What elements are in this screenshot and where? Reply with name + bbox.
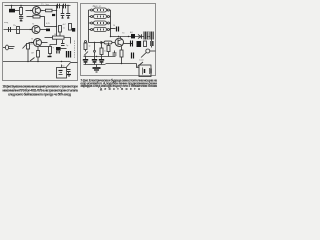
ground cap G21 [85, 56, 87, 60]
ground G2 [67, 74, 71, 76]
pickup L1 [94, 8, 107, 12]
capacitor C4 to ground [62, 6, 64, 14]
transformer TR2 winding B [150, 32, 154, 40]
wire stage2 base row [4, 29, 33, 31]
arrow into T2 [30, 29, 32, 31]
electrolytic C27 [150, 41, 153, 46]
capacitor C5 [8, 27, 10, 32]
resistor R7 horizontal [53, 36, 65, 39]
svg-text:1к: 1к [63, 27, 65, 29]
diode D2 arrow [138, 35, 141, 39]
resistor R5 [17, 27, 20, 34]
switch S22 [138, 62, 144, 67]
wire T4 collector up [120, 37, 122, 39]
ground bus wire [3, 61, 71, 63]
left schematic frame [3, 3, 78, 81]
wire row y26 [45, 26, 57, 28]
switch S2 [67, 63, 71, 68]
battery cell long [142, 68, 144, 75]
resistor R22 hanging [85, 41, 87, 43]
capacitor C2 series on bus [57, 4, 59, 9]
svg-text:10: 10 [113, 25, 115, 27]
resistor R26 horizontal [104, 41, 112, 44]
svg-text:5к: 5к [104, 51, 106, 53]
battery box B1 [139, 65, 151, 77]
wire R7 to R10 [50, 39, 57, 46]
pickup L3 [94, 21, 107, 25]
capacitor C11 plates [67, 69, 71, 71]
pickup L4 [94, 28, 107, 32]
wire to T4 base [112, 42, 115, 44]
capacitor C1 under R1 [20, 15, 22, 17]
ground cap G22 [94, 52, 96, 59]
svg-text:0,25: 0,25 [46, 23, 50, 25]
wiper arrow on bus [30, 58, 35, 62]
capacitor C10 plates [62, 40, 64, 43]
wire collector T3 [41, 42, 47, 44]
resistor R2 horizontal [46, 9, 53, 12]
switch S1 [23, 44, 28, 49]
capacitor C4b to ground [67, 6, 69, 14]
branch wire 2 [94, 43, 96, 51]
lower bus [84, 64, 106, 66]
switch S23 to jack [141, 53, 146, 58]
svg-text:Звук. гл.: Звук. гл. [93, 5, 102, 8]
wire wiper out [40, 46, 49, 48]
dashed feedback wire [74, 41, 76, 59]
wire base lead T1 [26, 10, 33, 12]
wire collector T1 [40, 10, 56, 12]
wire top supply bus [5, 5, 71, 7]
transformer TR1 black block [9, 9, 15, 13]
node vertical x56 lower [56, 20, 58, 37]
svg-text:22к: 22к [13, 25, 16, 27]
svg-text:Т2: Т2 [32, 24, 34, 26]
resistor R23 [101, 43, 103, 49]
wire box to switch [137, 64, 140, 68]
potentiometer P1 [37, 51, 40, 58]
resistor R8 [59, 26, 62, 33]
arrow into T1 [30, 10, 32, 12]
svg-text:1к: 1к [89, 46, 91, 48]
coupling blob C1b [52, 14, 55, 16]
junction dots right [94, 28, 132, 64]
switch S21 [84, 52, 88, 56]
resistor R1 [20, 8, 23, 15]
capacitor C8 electrolytic black [56, 47, 61, 51]
big ground G24 [96, 65, 98, 68]
wire speaker up [61, 65, 63, 68]
resistor R9 [69, 24, 72, 31]
battery cell short [144, 69, 146, 73]
svg-text:Т3: Т3 [31, 38, 33, 40]
junction dots left [8, 5, 69, 62]
arrow into T3 [31, 42, 33, 44]
resistor R21 [144, 41, 147, 47]
capacitor C6 electrolytic black [72, 28, 75, 32]
emitter resistor R24 [108, 43, 110, 46]
cell bars right [149, 68, 151, 74]
transformer TR2 winding A [144, 32, 148, 40]
arrow into base [101, 41, 103, 43]
transistor T4 [115, 38, 123, 46]
resistor R6 [27, 44, 30, 50]
wire C8 out [61, 48, 67, 50]
capacitor C23 bars [130, 41, 132, 47]
speaker box SP [57, 68, 67, 79]
svg-text:след които байпасването при гд: след които байпасването при где че 50% в… [8, 92, 72, 96]
ground bar under R10 [48, 56, 52, 58]
wire TR1 to bus [11, 6, 13, 9]
resistor R10 [49, 47, 52, 54]
coupling blob C7 [46, 29, 50, 32]
wire right pickup bus [109, 9, 110, 11]
capacitor C24 black [137, 41, 142, 47]
wire base bus mid [89, 42, 105, 44]
wire collector T2 [40, 29, 47, 31]
pickup L2 [94, 15, 107, 19]
wire transformer down [151, 40, 153, 48]
wire R6 down [27, 49, 29, 62]
arrow out T1 [41, 10, 43, 12]
transistor T2 [32, 26, 40, 34]
wire TR1 output [15, 10, 20, 12]
transistor T3 [34, 39, 42, 47]
input jack J1 [5, 45, 8, 50]
wire left pickup bus [89, 9, 91, 11]
wire R1 to bus [20, 6, 22, 8]
transformer core [148, 31, 150, 40]
jack J2 [146, 49, 150, 53]
svg-text:помп: помп [139, 59, 144, 61]
svg-text:5мк: 5мк [46, 4, 49, 6]
resistor R3 horizontal [27, 16, 34, 18]
capacitor C9 bars [66, 51, 68, 58]
wire S2 to frame [71, 62, 78, 64]
resistor R25 [121, 47, 123, 51]
right schematic frame [81, 4, 156, 76]
bus lower [84, 56, 116, 58]
main wire y36 [111, 36, 153, 38]
capacitor C25 plates [114, 51, 116, 53]
ground cap G23 [101, 55, 103, 60]
svg-text:1М: 1М [31, 53, 34, 55]
svg-text:10к: 10к [54, 34, 57, 36]
diode D1 black [131, 34, 135, 38]
wire T4 emitter out [124, 43, 131, 45]
node vertical x56 [56, 6, 58, 20]
wire base T3 [29, 42, 34, 44]
wire bottom run [106, 63, 137, 65]
transistor T1 [33, 7, 41, 15]
capacitor C21 electrolytic [111, 28, 116, 30]
capacitor C26 bars [131, 53, 133, 59]
svg-text:д е й с т в и е т о: д е й с т в и е т о [100, 87, 140, 91]
capacitor C3 series on bus [63, 4, 65, 9]
